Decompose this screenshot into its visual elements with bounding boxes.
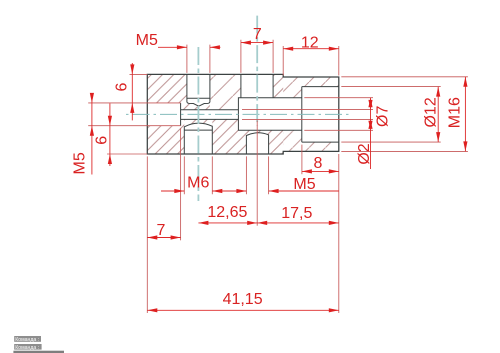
arrows dia12 (436, 87, 440, 97)
counterbore 12 outline (302, 87, 339, 143)
dim line 12,65 / 17,5 (198, 222, 338, 224)
ext 8 (301, 145, 303, 175)
tapped hole M6 outline (184, 123, 212, 154)
dim line 6 lower left (109, 103, 111, 166)
arrows M6 (174, 189, 184, 193)
left hole M5 end face (180, 103, 182, 126)
arrows 7 top (241, 41, 251, 45)
svg-text:41,15: 41,15 (223, 291, 263, 308)
svg-text:17,5: 17,5 (281, 205, 312, 222)
arrows 6 lower left (108, 116, 112, 126)
tapped hole M5 top outline (187, 74, 210, 106)
svg-text:M16: M16 (447, 97, 464, 128)
arrows 6 upper left (130, 64, 134, 74)
command prompt box 1 (14, 336, 41, 343)
svg-text:Ø2: Ø2 (356, 143, 373, 164)
dim line M6 / M5 bottom (161, 190, 339, 192)
ext dia2 (242, 109, 373, 119)
dim line 41,15 (147, 309, 338, 311)
arrows M5 bottom (236, 189, 246, 193)
ext right face bottom (338, 154, 340, 313)
tapped hole M5 bottom outline (246, 133, 268, 154)
counterbore 12 void (302, 87, 339, 143)
svg-text:8: 8 (314, 155, 323, 172)
arrows dia7 (368, 98, 372, 108)
svg-text:7: 7 (157, 222, 166, 239)
arrows M5 left (90, 93, 94, 103)
part outline (147, 74, 338, 154)
section hatching left block (147, 74, 283, 154)
ext top edge left (130, 73, 148, 75)
dim line 6 upper left (131, 63, 133, 120)
arrows M5 top (177, 45, 187, 49)
vertical hole 7 outline (241, 74, 273, 97)
centerline vertical hole7/M5 (256, 16, 258, 126)
svg-text:Команда :: Команда : (15, 337, 39, 343)
dimension lines red (92, 43, 466, 311)
extension lines red (107, 40, 468, 313)
arrows 12,65 (198, 221, 208, 225)
tapped hole M5 top thread shelf (187, 97, 210, 99)
dim line 12 top (283, 48, 339, 50)
centerline horizontal axis (126, 113, 349, 115)
ext M6 (184, 156, 212, 194)
arrowheads (90, 41, 468, 313)
horizontal hole 7 void (238, 98, 301, 130)
left hole M5 void (147, 103, 180, 126)
dim line dia7/dia2 (370, 98, 372, 169)
hole voids (white) (147, 74, 338, 154)
dim line M16 (464, 77, 466, 152)
svg-text:6: 6 (113, 82, 130, 91)
dim line 7 top (241, 42, 273, 44)
section hatching right section (283, 77, 339, 151)
ext center bottom M5 (256, 121, 258, 226)
vertical hole 7 void (241, 74, 273, 97)
dim line M5 top (158, 46, 220, 48)
arrows M16 (463, 77, 467, 87)
arrows dia2 (368, 100, 372, 110)
ext M16 (341, 77, 468, 152)
ext dia7 (304, 98, 373, 131)
ext M5 top hole (187, 45, 210, 73)
svg-text:12: 12 (301, 34, 319, 51)
left hole M5 thread lines (red) (88, 103, 180, 126)
channel 2 outline (181, 110, 239, 120)
ext dia12 (341, 87, 440, 143)
arrows 8 (302, 169, 312, 173)
section hatching lower-middle zone (212, 119, 283, 154)
ext channel end (180, 128, 182, 240)
ext bottom edge left (107, 153, 147, 155)
ext M5 bottom (246, 156, 268, 194)
section hatching between top holes (210, 74, 241, 109)
arrows 41,15 (147, 308, 157, 312)
ext left face bottom (146, 156, 148, 313)
horizontal hole 7 outline (238, 98, 301, 130)
command prompt box 2 (14, 344, 41, 351)
svg-text:12,65: 12,65 (207, 204, 247, 221)
dimension texts (72, 26, 464, 308)
tapped hole M5 bottom void (246, 133, 268, 154)
arrows 17,5 (257, 221, 267, 225)
ext hole 7 top (241, 40, 273, 73)
channel 2 void (181, 110, 239, 120)
tapped hole M6 thread line (184, 129, 212, 131)
section hatching lower-left zone (147, 119, 184, 154)
arrows 7 bottom (147, 235, 157, 239)
svg-text:6: 6 (94, 136, 111, 145)
dim line 7 bottom (147, 237, 180, 239)
ext 12 step (283, 46, 339, 76)
svg-text:7: 7 (253, 26, 262, 43)
svg-text:Команда :: Команда : (15, 345, 39, 351)
arrows 12 top (283, 47, 293, 51)
tapped hole M5 top void (187, 74, 210, 106)
dim line M5 left (91, 93, 93, 175)
dim line 8 (302, 170, 339, 172)
command prompt box 3 (13, 351, 64, 353)
svg-text:M5: M5 (136, 32, 158, 49)
svg-text:Ø7: Ø7 (374, 106, 391, 127)
svg-text:M5: M5 (72, 152, 89, 174)
svg-text:Ø12: Ø12 (423, 97, 440, 127)
dim line dia12 (437, 87, 439, 143)
svg-text:M6: M6 (187, 174, 209, 191)
svg-text:M5: M5 (293, 176, 315, 193)
tapped hole M6 void (184, 123, 212, 154)
centerline vertical M5/M6 (197, 47, 199, 201)
